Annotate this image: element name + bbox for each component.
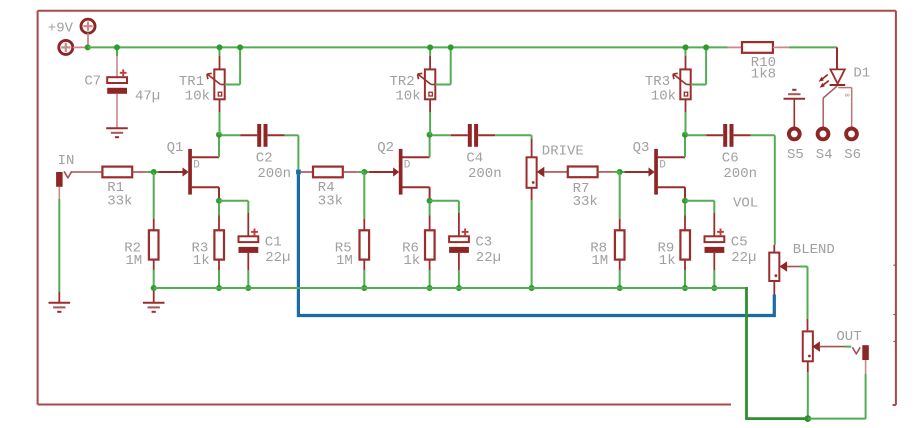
ground IN xyxy=(49,303,71,312)
wire TR1 wiper to rail xyxy=(225,84,240,86)
diode D1 LED xyxy=(819,69,846,87)
pin mark IN xyxy=(64,171,72,178)
wire TR2 wiper to rail xyxy=(435,84,450,86)
transistor Q1 xyxy=(183,149,220,195)
wire ground bus bottom right xyxy=(808,418,866,420)
svg-text:OUT: OUT xyxy=(836,329,861,345)
svg-text:1k8: 1k8 xyxy=(751,66,776,82)
svg-text:BLEND: BLEND xyxy=(793,242,835,258)
node rail TR3 xyxy=(683,44,689,50)
connector OUT xyxy=(862,345,869,360)
node bus R8 xyxy=(617,285,623,291)
wire R8 to bus xyxy=(619,260,621,270)
wire source to C5 xyxy=(685,200,714,202)
svg-text:22µ: 22µ xyxy=(731,250,756,266)
node source Q2 xyxy=(427,198,433,204)
capacitor C1 22u xyxy=(239,229,259,253)
wire gate net Q3 xyxy=(620,171,625,173)
svg-text:C7: C7 xyxy=(84,73,101,89)
svg-text:D: D xyxy=(659,160,666,172)
ground bus xyxy=(143,303,165,312)
wire source Q2 xyxy=(429,187,431,198)
wire gate to R8 xyxy=(619,172,621,219)
wire gate to R5 xyxy=(363,172,365,219)
svg-text:1M: 1M xyxy=(591,253,608,269)
trimmer TR1 10k xyxy=(207,69,225,99)
wiper volume xyxy=(812,341,820,351)
svg-text:33k: 33k xyxy=(318,193,343,209)
svg-text:200n: 200n xyxy=(257,166,291,182)
wire rail to TR2 xyxy=(429,47,431,56)
wire TR3 to drain node xyxy=(685,99,687,112)
svg-text:47µ: 47µ xyxy=(135,88,160,104)
node bus DRIVE xyxy=(529,285,535,291)
wire TR2 to drain node xyxy=(429,99,431,112)
wire R3 to bus xyxy=(218,260,220,270)
node bus R6 xyxy=(427,285,433,291)
svg-text:1k: 1k xyxy=(193,253,210,269)
wire earth to S5 xyxy=(793,99,795,128)
wire OUT to bus xyxy=(865,360,867,374)
wire source Q3 xyxy=(684,187,686,198)
svg-text:200n: 200n xyxy=(468,166,502,182)
wire R9 to bus xyxy=(684,260,686,270)
capacitor C5 22u xyxy=(705,229,725,253)
wire C7 to ground xyxy=(116,94,118,128)
wire C3 to bus xyxy=(458,253,460,270)
resistor R6 1k xyxy=(425,230,435,259)
wire C6 output xyxy=(734,134,751,136)
node bus C1 xyxy=(245,285,251,291)
wire drain node to C6 xyxy=(687,134,706,136)
node rail C7 xyxy=(114,44,120,50)
node bus R9 xyxy=(682,285,688,291)
wire source to R9 xyxy=(684,203,686,216)
node gate Q2 xyxy=(361,169,367,175)
node bus volume xyxy=(804,415,811,422)
svg-text:Q1: Q1 xyxy=(167,140,184,156)
svg-text:D1: D1 xyxy=(853,65,870,81)
wire IN to ground xyxy=(58,187,60,199)
svg-text:Q3: Q3 xyxy=(633,140,650,156)
wire C6 out to BLEND xyxy=(751,134,775,136)
wire R7 to gate node xyxy=(598,171,613,173)
wire source to R6 xyxy=(429,203,431,216)
svg-text:C6: C6 xyxy=(722,150,739,166)
wire DRIVE to bus xyxy=(531,188,533,200)
potentiometer DRIVE xyxy=(527,157,537,188)
svg-text:C3: C3 xyxy=(475,234,492,250)
svg-text:VOL: VOL xyxy=(733,195,758,211)
svg-text:S4: S4 xyxy=(816,147,833,163)
pad +9V left xyxy=(59,40,73,54)
svg-text:1k: 1k xyxy=(659,253,676,269)
wire D1 cathode to S6 xyxy=(838,87,851,89)
wire rail to C7 xyxy=(116,47,118,56)
wire C5 to bus xyxy=(713,253,715,270)
svg-text:33k: 33k xyxy=(107,193,132,209)
svg-text:C5: C5 xyxy=(731,234,748,250)
node bus R5 xyxy=(361,285,367,291)
potentiometer volume xyxy=(803,331,813,361)
wire wiper to OUT xyxy=(820,346,845,348)
wire C1 to bus xyxy=(247,253,249,270)
wire node to R4 xyxy=(301,171,313,173)
node +9V rail xyxy=(85,44,91,50)
node source Q1 xyxy=(216,198,222,204)
svg-text:200n: 200n xyxy=(723,166,757,182)
wire volume bottom to bus xyxy=(807,361,809,372)
node rail TR2 xyxy=(427,44,433,50)
svg-text:1k: 1k xyxy=(403,253,420,269)
svg-text:1M: 1M xyxy=(125,253,142,269)
svg-text:D: D xyxy=(404,160,411,172)
wire +9V rail xyxy=(88,46,728,48)
capacitor C3 22u xyxy=(449,229,469,253)
node rail TR2 wiper xyxy=(448,44,454,50)
wire rail to TR1 xyxy=(219,47,221,56)
node bus C5 xyxy=(711,285,717,291)
svg-text:IN: IN xyxy=(58,153,75,169)
capacitor C6 200n xyxy=(723,124,733,147)
node drain Q2 xyxy=(427,132,433,138)
svg-text:10k: 10k xyxy=(185,89,210,105)
node gate Q1 xyxy=(151,169,157,175)
resistor R1 33k xyxy=(102,167,132,178)
resistor R2 1M xyxy=(149,230,159,259)
wire C4 output xyxy=(478,134,495,136)
node rail TR3 wiper xyxy=(703,44,709,50)
connector IN xyxy=(56,172,63,187)
capacitor C4 200n xyxy=(468,124,478,147)
wire bus to ground xyxy=(153,291,155,302)
pad S4 xyxy=(818,129,829,140)
wire drain Q2 xyxy=(429,135,431,157)
wire R2 to bus xyxy=(153,260,155,270)
wire source Q1 xyxy=(218,187,220,198)
wire gate net Q2 xyxy=(364,171,369,173)
wire R5 to bus xyxy=(363,260,365,270)
wire TR3 wiper to rail xyxy=(691,84,706,86)
node rail TR1 xyxy=(217,44,223,50)
node gate Q3 xyxy=(617,169,623,175)
resistor R4 33k xyxy=(313,167,343,178)
pad +9V top xyxy=(81,19,95,33)
svg-text:10k: 10k xyxy=(395,89,420,105)
svg-text:S6: S6 xyxy=(844,147,861,163)
svg-text:8: 8 xyxy=(843,93,850,97)
svg-text:C1: C1 xyxy=(265,234,282,250)
resistor R7 33k xyxy=(568,167,598,178)
wire C4 out to DRIVE xyxy=(495,134,531,136)
transistor Q2 xyxy=(393,149,430,195)
wiper DRIVE xyxy=(537,167,545,177)
wire BLEND bottom to blend net xyxy=(773,281,775,296)
node bus R2 xyxy=(151,285,157,291)
svg-text:S5: S5 xyxy=(787,147,804,163)
wire rail to R10 xyxy=(728,46,742,48)
capacitor C7 47u xyxy=(107,69,127,93)
wire R6 to bus xyxy=(429,260,431,270)
wire gate net Q1 xyxy=(154,171,159,173)
resistor R3 1k xyxy=(214,230,224,259)
trimmer TR2 10k xyxy=(418,69,436,99)
svg-text:22µ: 22µ xyxy=(476,250,501,266)
wire R4 to gate node xyxy=(343,171,358,173)
wire drain node to C4 xyxy=(432,134,451,136)
svg-text:+9V: +9V xyxy=(48,21,74,37)
pad S5 xyxy=(789,129,800,140)
wire R1 to gate node xyxy=(132,171,147,173)
svg-text:10k: 10k xyxy=(651,89,676,105)
svg-text:1M: 1M xyxy=(336,253,353,269)
node source Q3 xyxy=(682,198,688,204)
trimmer TR3 10k xyxy=(673,69,691,99)
earth above S5 xyxy=(784,90,806,99)
potentiometer BLEND xyxy=(769,253,779,281)
capacitor C2 200n xyxy=(257,124,267,147)
resistor R8 1M xyxy=(615,230,625,259)
wire blend net blue xyxy=(298,174,774,315)
pin mark OUT xyxy=(852,347,860,354)
resistor R10 1k8 xyxy=(742,42,773,53)
wire C2 output xyxy=(268,134,285,136)
wire ground bus down xyxy=(745,287,748,419)
resistor R5 1M xyxy=(360,230,370,259)
pad S6 xyxy=(846,129,857,140)
wire drain Q1 xyxy=(218,135,220,157)
transistor Q3 xyxy=(649,149,686,195)
node bus R3 xyxy=(216,285,222,291)
wire DRIVE wiper to R7 xyxy=(544,171,568,173)
wire source to C1 xyxy=(219,200,248,202)
node drain Q3 xyxy=(682,132,688,138)
wire D1 cathode to S4 xyxy=(823,86,837,98)
wire drain Q3 xyxy=(684,135,686,157)
wire drain node to C2 xyxy=(221,134,240,136)
wire IN to R1 xyxy=(72,171,103,173)
wire R10 to D1 xyxy=(773,46,789,48)
svg-text:C4: C4 xyxy=(466,150,483,166)
wire +9V pads to rail xyxy=(87,33,89,47)
wire source to C3 xyxy=(430,200,459,202)
wiper BLEND xyxy=(780,261,788,271)
svg-text:C2: C2 xyxy=(256,150,273,166)
node rail TR1 wiper xyxy=(237,44,243,50)
node C2 out blend tap xyxy=(296,170,301,175)
svg-text:DRIVE: DRIVE xyxy=(542,144,584,160)
svg-text:D: D xyxy=(193,160,200,172)
wire C2 out to node xyxy=(285,134,299,136)
ground C7 xyxy=(106,128,128,137)
resistor R9 1k xyxy=(680,230,690,259)
wire source to R3 xyxy=(218,203,220,216)
node drain Q1 xyxy=(216,132,222,138)
svg-text:33k: 33k xyxy=(573,194,598,210)
wire BLEND wiper to VOL pot xyxy=(787,266,799,268)
wire TR1 to drain node xyxy=(219,99,221,112)
wire ground bus xyxy=(154,287,747,289)
wire rail to TR3 xyxy=(685,47,687,56)
node bus C3 xyxy=(456,285,462,291)
svg-text:Q2: Q2 xyxy=(377,140,394,156)
wire gate to R2 xyxy=(153,172,155,219)
svg-text:22µ: 22µ xyxy=(265,250,290,266)
